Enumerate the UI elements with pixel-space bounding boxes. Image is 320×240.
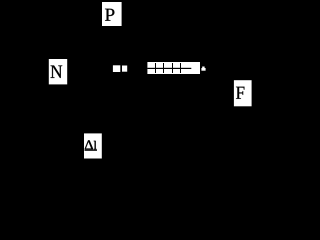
label box F: [234, 80, 252, 106]
scale tick 3: [172, 63, 173, 73]
clamp block left: [113, 65, 120, 72]
scale tick 4: [180, 63, 181, 73]
clamp block right: [122, 66, 127, 72]
scale tick 2: [163, 63, 164, 73]
label box Δl: [84, 133, 102, 158]
label box P: [102, 2, 122, 26]
scale tick 1: [155, 63, 156, 73]
pointer knob: [201, 67, 205, 71]
dynamometer scale body: [147, 62, 200, 74]
scale midline: [147, 68, 191, 69]
label box N: [49, 59, 67, 84]
